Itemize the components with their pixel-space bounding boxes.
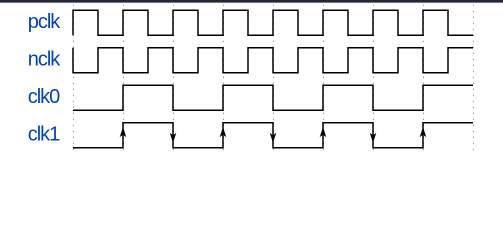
clk1 falling-edge arrow down at t6 [370,133,377,143]
waveform clk1 [73,123,473,148]
cycle gridline t3 [223,5,225,151]
cycle gridline t0 [73,5,75,151]
cycle gridline t8 [473,5,475,151]
svg-text:clk1: clk1 [28,124,60,146]
clk1 rising-edge arrow up at t5 [320,127,327,137]
clk1 rising-edge arrow up at t7 [420,127,427,137]
top toolbar edge bar [0,0,503,3]
cycle gridline t2 [173,5,175,151]
clk1 rising-edge arrow up at t3 [220,127,227,137]
cycle gridline t7 [423,5,425,151]
svg-text:clk0: clk0 [28,86,60,108]
clk1 falling-edge arrow down at t2 [170,133,177,143]
clk1 rising-edge arrow up at t1 [120,127,127,137]
svg-text:nclk: nclk [28,49,62,71]
svg-text:pclk: pclk [28,11,62,33]
waveform pclk [73,10,473,35]
waveform clk0 [73,85,473,110]
waveform nclk [73,48,473,73]
cycle gridline t4 [273,5,275,151]
cycle gridline t1 [123,5,125,151]
cycle gridline t6 [373,5,375,151]
cycle gridline t5 [323,5,325,151]
clk1 falling-edge arrow down at t4 [270,133,277,143]
